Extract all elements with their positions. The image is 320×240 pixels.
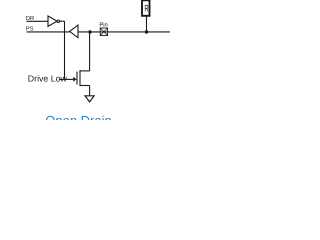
svg-text:R: R: [144, 4, 148, 15]
svg-text:PS: PS: [26, 26, 34, 33]
svg-text:DR: DR: [26, 15, 35, 22]
svg-text:Pin: Pin: [99, 22, 107, 29]
svg-text:Drive Low: Drive Low: [28, 73, 68, 83]
svg-text:Open Drain: Open Drain: [45, 113, 111, 120]
